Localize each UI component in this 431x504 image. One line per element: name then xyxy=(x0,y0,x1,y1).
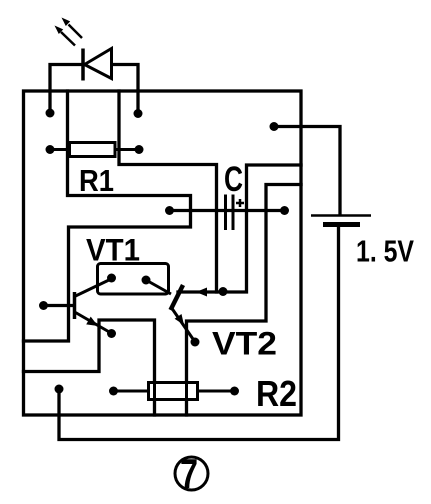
svg-text:7: 7 xyxy=(180,450,198,497)
svg-text:VT2: VT2 xyxy=(212,326,277,362)
svg-text:R1: R1 xyxy=(79,163,114,198)
svg-text:R2: R2 xyxy=(256,373,297,414)
svg-text:C: C xyxy=(224,160,243,199)
svg-text:1. 5V: 1. 5V xyxy=(356,234,414,269)
